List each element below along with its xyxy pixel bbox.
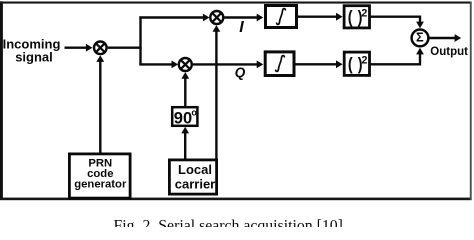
wire: incoming signal into multiplier M1 (65, 44, 93, 52)
wire: fork to multiplier M2 (I branch) (139, 14, 209, 22)
svg-text:Q: Q (235, 65, 246, 80)
multiplier M1 (PRN despreading mixer) (94, 42, 107, 55)
wire: I squarer to summer (370, 17, 424, 29)
wire: I integrator to I squarer (298, 13, 343, 21)
phase shifter 90 degrees (172, 107, 197, 127)
summer U5 (sigma adder) (412, 30, 429, 47)
svg-text:o: o (191, 107, 197, 117)
multiplier M2 (I branch mixer) (210, 11, 223, 24)
svg-text:signal: signal (15, 50, 53, 65)
figure frame left edge (0, 1, 3, 200)
svg-text:Local: Local (178, 162, 212, 177)
wire: PRN code generator to M1 (96, 55, 104, 153)
squarer U4 ( )&#178; (Q branch) (344, 52, 369, 75)
figure frame right edge (470, 2, 472, 201)
svg-text:I: I (239, 19, 244, 36)
wire: 90 degree shifter to M3 (181, 72, 189, 106)
wire: local carrier to 90 degree shifter (181, 127, 189, 160)
wire: local carrier to M2 (213, 25, 221, 159)
svg-text:Σ: Σ (416, 31, 424, 45)
local carrier oscillator block (169, 160, 216, 194)
svg-text:Fig. 2. Serial search acquisit: Fig. 2. Serial search acquisition [10] (114, 217, 343, 227)
wire: M1 output to branch fork (108, 47, 142, 49)
integrator U2 (Q branch) (265, 52, 294, 76)
svg-text:Output: Output (430, 46, 468, 58)
label: Incoming signal (3, 37, 61, 65)
svg-text:generator: generator (74, 179, 127, 191)
wire: summer to output (429, 34, 461, 42)
wire: M2 to I integrator (224, 14, 263, 22)
PRN code generator block (69, 154, 130, 198)
wire: fork to multiplier M3 (Q branch) (139, 61, 178, 69)
figure frame bottom edge (0, 198, 472, 201)
squarer U3 ( )&#178; (I branch) (344, 6, 369, 28)
svg-text:90: 90 (174, 109, 192, 127)
integrator U1 (I branch) (266, 6, 297, 28)
wire: M3 to Q integrator (193, 61, 263, 69)
wire: Q integrator to Q squarer (295, 60, 343, 68)
figure frame top edge (0, 2, 472, 4)
svg-text:2: 2 (361, 7, 367, 19)
svg-text:2: 2 (362, 55, 368, 67)
multiplier M3 (Q branch mixer) (179, 58, 192, 71)
wire: Q squarer to summer (370, 48, 424, 65)
svg-text:carrier: carrier (175, 176, 215, 191)
wire: fork vertical between I and Q branches (139, 16, 141, 65)
